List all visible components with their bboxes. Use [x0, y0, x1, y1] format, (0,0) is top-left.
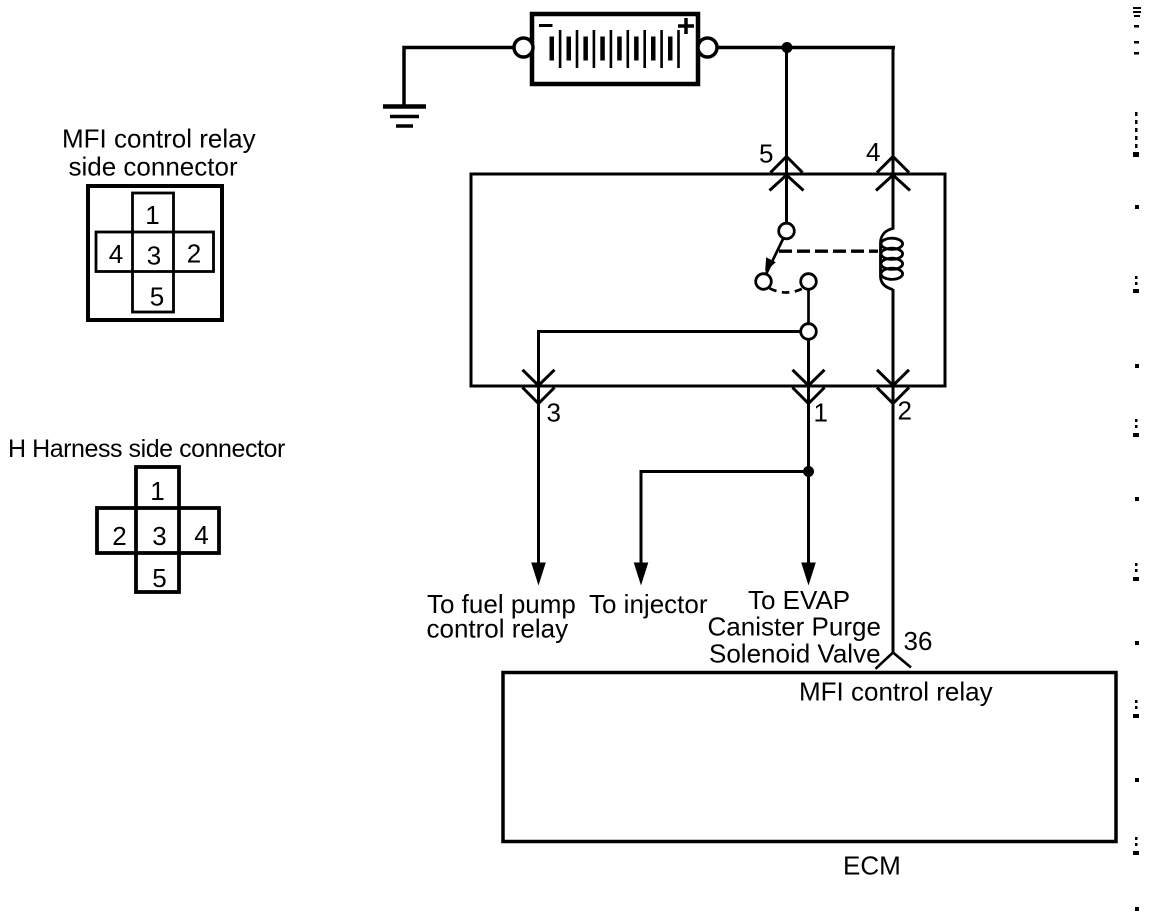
- svg-text:3: 3: [147, 241, 161, 271]
- svg-text:MFI control relay: MFI control relay: [62, 124, 256, 154]
- wire down to relay pin 4: [892, 46, 895, 230]
- dashed mechanical link to coil: [779, 250, 878, 253]
- pin 5 connector chevrons: [770, 157, 804, 191]
- wire battery negative to ground: [404, 48, 514, 107]
- relay box (MFI control relay): [471, 174, 945, 386]
- svg-text:1: 1: [145, 200, 159, 230]
- wire down to relay pin 5: [785, 48, 788, 224]
- pin 4 connector chevrons: [876, 157, 910, 191]
- svg-text:side connector: side connector: [69, 152, 238, 182]
- svg-text:5: 5: [759, 139, 773, 169]
- battery cell plates: [550, 30, 680, 68]
- svg-text:5: 5: [152, 563, 166, 593]
- wire pin 3 to fuel pump relay: [537, 386, 540, 564]
- svg-text:36: 36: [904, 626, 933, 656]
- svg-text:1: 1: [150, 476, 164, 506]
- wire tap to injector: [641, 472, 809, 565]
- svg-text:2: 2: [112, 521, 126, 551]
- battery positive terminal: [698, 38, 717, 57]
- arrowhead to fuel pump: [531, 563, 546, 586]
- pin 2 connector chevrons: [877, 370, 909, 404]
- pin 3 connector chevrons: [523, 370, 555, 404]
- relay coil: [881, 229, 903, 290]
- svg-text:1: 1: [814, 398, 828, 428]
- wire junction down to pin 1: [807, 339, 810, 564]
- switch common contact: [779, 223, 795, 239]
- wire coil to pin 2: [892, 289, 895, 652]
- wire switch contact to pin 1: [807, 289, 810, 323]
- svg-text:4: 4: [109, 239, 123, 269]
- MFI connector vertical cells: [133, 193, 174, 312]
- svg-text:4: 4: [194, 520, 208, 550]
- pin 36 entry chevron: [876, 653, 912, 669]
- svg-text:H Harness side connector: H Harness side connector: [8, 435, 285, 463]
- pin 1 connector chevrons: [793, 370, 825, 404]
- switch arm arrowhead: [765, 257, 776, 271]
- H harness horizontal cells: [97, 508, 219, 553]
- svg-text:To injector: To injector: [589, 589, 708, 619]
- dashed contact arc: [770, 288, 803, 292]
- wire battery positive to vertical drops: [717, 46, 895, 50]
- MFI connector outer box: [88, 186, 222, 320]
- scan artifacts right margin: [1133, 7, 1141, 911]
- battery negative terminal: [514, 38, 533, 57]
- switch contact (left): [756, 274, 772, 290]
- arrowhead to injector: [634, 563, 649, 586]
- H harness vertical cells: [136, 467, 179, 592]
- node junction at battery feed: [782, 42, 793, 53]
- svg-text:Canister Purge: Canister Purge: [708, 612, 881, 642]
- switch contact (right): [801, 274, 817, 290]
- node junction injector tap: [803, 466, 814, 477]
- svg-text:ECM: ECM: [843, 851, 901, 881]
- svg-text:5: 5: [150, 282, 164, 312]
- ground: [383, 107, 426, 127]
- ECM box: [503, 673, 1116, 842]
- svg-text:MFI control relay: MFI control relay: [799, 677, 993, 707]
- svg-text:Solenoid Valve: Solenoid Valve: [709, 639, 881, 669]
- svg-text:To EVAP: To EVAP: [748, 585, 850, 615]
- switch arm: [766, 239, 783, 274]
- MFI connector horizontal cells: [96, 232, 214, 272]
- svg-text:2: 2: [898, 396, 912, 426]
- arrowhead to EVAP: [801, 563, 816, 586]
- svg-text:control relay: control relay: [427, 614, 569, 644]
- svg-text:2: 2: [187, 239, 201, 269]
- svg-text:4: 4: [866, 137, 880, 167]
- node junction contact: [801, 324, 817, 340]
- battery B1: [532, 14, 698, 84]
- svg-text:3: 3: [547, 398, 561, 428]
- svg-text:3: 3: [152, 521, 166, 551]
- wire junction to pin 3: [539, 332, 801, 386]
